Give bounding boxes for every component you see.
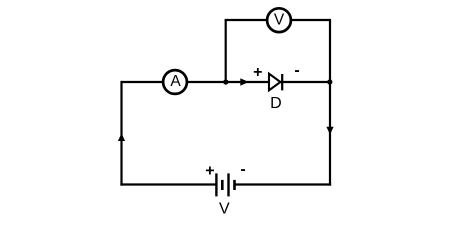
current arrow down on right wire	[326, 127, 333, 135]
junction node right of diode	[327, 79, 332, 84]
wire left vertical	[120, 81, 122, 186]
wire bottom left segment	[120, 183, 216, 185]
junction node left of diode	[223, 79, 228, 84]
current arrow up on left wire	[118, 133, 125, 141]
svg-text:-: -	[294, 62, 299, 79]
battery V	[216, 173, 234, 196]
current arrow on middle wire	[240, 78, 248, 85]
wire voltmeter branch vertical	[225, 20, 227, 82]
voltmeter V	[267, 8, 291, 32]
svg-text:+: +	[253, 64, 262, 81]
wire right vertical	[329, 19, 331, 186]
svg-text:-: -	[240, 161, 245, 178]
svg-text:V: V	[274, 11, 285, 28]
ammeter A	[163, 70, 187, 94]
svg-text:+: +	[205, 163, 214, 180]
diode D	[269, 74, 282, 91]
wire bottom right segment	[235, 183, 331, 185]
wire middle horizontal	[122, 81, 331, 83]
svg-text:D: D	[270, 95, 282, 112]
svg-text:A: A	[170, 73, 181, 90]
wire top horizontal	[225, 19, 330, 21]
svg-text:V: V	[219, 200, 230, 217]
